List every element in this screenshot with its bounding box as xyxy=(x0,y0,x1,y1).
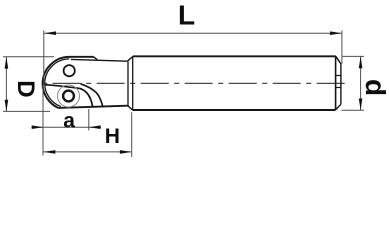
centerline (dash-dot axis) xyxy=(39,82,345,84)
arrowhead L left xyxy=(44,31,56,35)
shank chamfer ring line xyxy=(335,56,337,110)
arrowhead d bottom xyxy=(359,99,363,111)
H right extension line xyxy=(131,112,133,157)
arrowhead D top xyxy=(5,57,9,69)
center hole lower mark xyxy=(336,87,341,89)
a right extension line xyxy=(88,109,90,131)
svg-text:D: D xyxy=(12,80,39,97)
lower screw counterbore circle xyxy=(58,85,80,107)
cutter head inner nose arc (insert edge) xyxy=(45,59,69,107)
D dimension line xyxy=(5,57,7,112)
cutter head outer nose arc xyxy=(43,57,70,108)
arrowhead H left xyxy=(44,150,56,154)
svg-text:a: a xyxy=(63,110,75,133)
svg-text:d: d xyxy=(360,79,389,96)
arrowhead D bottom xyxy=(5,100,9,112)
a dimension line xyxy=(32,126,102,128)
junction bottom chamfer xyxy=(128,106,133,110)
head end face vertical xyxy=(127,61,129,105)
D bottom extension line xyxy=(3,110,50,112)
shank end top chamfer xyxy=(336,56,341,64)
L left extension line xyxy=(43,31,45,85)
junction second vertical xyxy=(132,56,134,110)
D top extension line xyxy=(3,56,54,58)
junction top chamfer xyxy=(127,56,133,61)
H dimension line xyxy=(44,151,132,153)
arrowhead a right (outside) xyxy=(89,125,101,129)
upper insert screw hole xyxy=(64,65,75,76)
head body top line xyxy=(71,59,127,61)
svg-text:L: L xyxy=(178,0,195,31)
a/H left extension line xyxy=(42,86,44,156)
wire: white background xyxy=(0,0,389,161)
center hole upper mark xyxy=(336,75,341,77)
shank end face xyxy=(340,64,342,105)
arrowhead H right xyxy=(120,150,132,154)
d dimension line xyxy=(360,56,362,110)
svg-text:H: H xyxy=(105,125,120,148)
d bottom extension line xyxy=(342,109,365,111)
d top extension line xyxy=(343,55,365,57)
L right extension line xyxy=(341,31,343,65)
lower insert screw hole xyxy=(63,91,74,102)
shank top edge xyxy=(133,55,336,57)
arrowhead d top xyxy=(359,56,363,68)
insert top chamfer xyxy=(94,57,98,60)
arrowhead L right xyxy=(330,31,342,35)
shank end bottom chamfer xyxy=(335,104,341,110)
insert pocket curve B xyxy=(81,84,103,107)
head bottom edge xyxy=(58,106,128,108)
arrowhead a left (outside) xyxy=(32,125,44,129)
L dimension line xyxy=(44,32,342,34)
insert top edge xyxy=(69,56,94,58)
insert pocket curve A xyxy=(45,85,93,107)
shank bottom edge xyxy=(133,109,336,111)
